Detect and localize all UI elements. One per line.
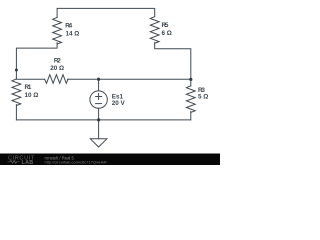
svg-text:R4: R4	[65, 23, 72, 30]
CircuitLab logo resistor zigzag	[8, 160, 20, 163]
svg-text:R1: R1	[25, 84, 32, 91]
wire: node to R3 top	[190, 79, 192, 86]
watermark bar	[0, 154, 220, 166]
svg-text:http://circuitlab.com/c6c717Qw: http://circuitlab.com/c6c717QwHkR	[45, 160, 107, 165]
svg-text:6 Ω: 6 Ω	[162, 30, 172, 37]
wire: middle horizontal R2 to R3 node	[68, 78, 191, 80]
wire: Es1 bottom lead	[98, 108, 100, 120]
wire: R5 bottom to right and down	[155, 43, 191, 80]
Es1 minus sign	[96, 103, 102, 105]
svg-text:10 Ω: 10 Ω	[25, 92, 39, 99]
wire: Es1 top lead	[98, 79, 100, 91]
Es1 plus sign	[96, 94, 102, 100]
ground lead	[98, 120, 100, 139]
svg-text:20 V: 20 V	[112, 100, 126, 107]
wire top: R4 top to R5 top	[57, 8, 155, 17]
svg-text:R2: R2	[54, 57, 61, 64]
svg-text:LAB: LAB	[22, 160, 34, 165]
svg-text:20 Ω: 20 Ω	[50, 65, 64, 72]
wire: R3 bottom lead	[190, 112, 192, 120]
svg-text:R5: R5	[162, 22, 169, 29]
resistor R2	[45, 75, 69, 84]
node dot R3 top junction	[189, 78, 192, 81]
ground symbol	[90, 139, 107, 147]
resistor R1	[12, 79, 21, 106]
wire: R4 bottom left and down to node	[16, 43, 57, 79]
resistor R5	[150, 17, 159, 44]
resistor R4	[53, 17, 62, 44]
node dot Es1 top junction	[97, 78, 100, 81]
svg-text:5 Ω: 5 Ω	[198, 93, 208, 100]
voltage source Es1	[90, 91, 107, 108]
wire: R1 bottom lead	[15, 105, 17, 120]
node dot ground junction	[97, 118, 100, 121]
svg-text:14 Ω: 14 Ω	[66, 31, 80, 38]
resistor R3	[186, 86, 195, 113]
wire: middle horizontal left lead of R2	[16, 78, 44, 80]
wire: bottom horizontal	[16, 119, 190, 121]
node dot on left vertical wire	[15, 69, 18, 72]
